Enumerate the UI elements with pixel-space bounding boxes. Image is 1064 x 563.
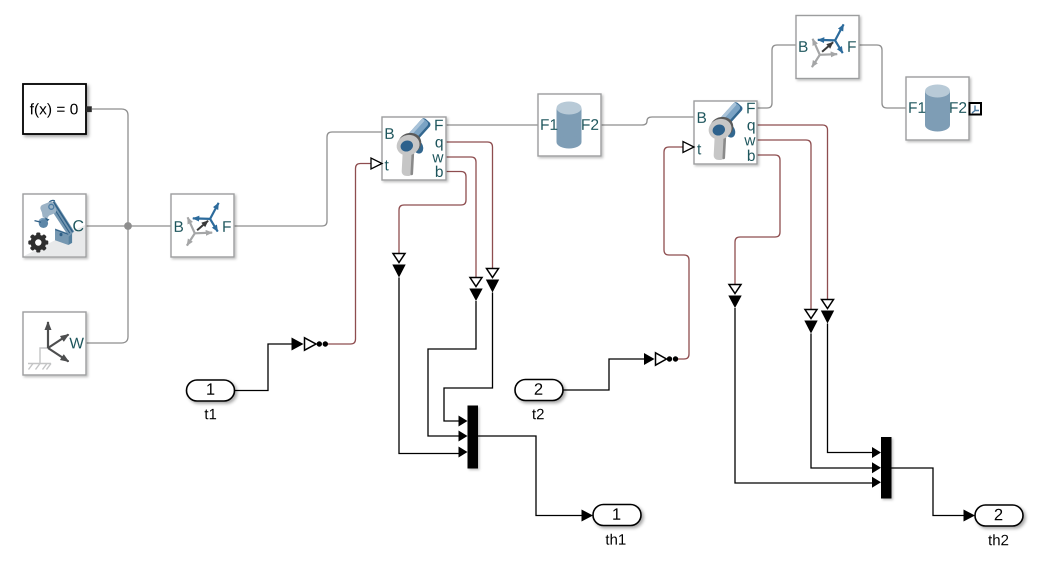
port B (175, 221, 183, 232)
joint icon (394, 117, 432, 176)
wire RT2 F to Solid2 F1 (859, 45, 906, 108)
wire converterC to Mux1 input1 (444, 293, 493, 422)
port q (436, 139, 443, 151)
wire Joint2 F to RT2 B (757, 45, 796, 108)
wire In2 to converter2 (563, 359, 644, 390)
converterF PS-S (joint2 q) (821, 300, 834, 324)
port F (435, 120, 443, 131)
outport 1 (th1) (593, 505, 641, 545)
port B (698, 112, 706, 123)
port t (697, 144, 701, 154)
mux 1 (459, 406, 479, 469)
wire simulink signals (black) (235, 278, 964, 516)
wire In1 to converter1 (235, 344, 292, 391)
wire converter1 to Joint1 t (328, 164, 372, 345)
mux 2 (872, 437, 892, 499)
rigid transform 1 block (171, 194, 234, 257)
port F1 (909, 102, 925, 113)
wire RT1 F to Joint1 B (234, 132, 382, 226)
wire converterA to Mux1 input3 (399, 278, 459, 454)
cylinder (925, 91, 950, 125)
blue follower frame (193, 203, 219, 232)
port w (744, 137, 755, 145)
outport 2 (th2) (975, 505, 1023, 545)
frame axes (48, 322, 69, 362)
port t (385, 160, 389, 170)
world frame block (23, 312, 86, 375)
port B (386, 128, 394, 139)
mechanism configuration block (23, 194, 86, 257)
outport 2 (th2) arrowhead (964, 510, 976, 522)
wire Joint2 b to converterD (735, 155, 780, 284)
wire Mux2 to Out2 (892, 468, 964, 516)
converter2 S-PS (t2) (644, 353, 678, 365)
port B (799, 41, 807, 52)
wire Joint1 w to converterB (446, 157, 476, 277)
black transform arrow (822, 42, 833, 52)
wire converterF to Mux2 input1 (828, 324, 873, 453)
blue follower frame (818, 24, 844, 53)
solid 1 block (cylinder) (538, 94, 601, 156)
wire Joint1 F to Solid1 F1 (446, 124, 538, 126)
converterA PS-S (joint1 b) (392, 254, 405, 278)
wire Mux1 to Out1 (478, 436, 582, 516)
ground bracket (28, 348, 51, 370)
inport 2 (t2) (515, 380, 563, 420)
port b (748, 150, 755, 161)
converterD PS-S (joint2 b) (728, 285, 741, 309)
wire converter2 to Joint2 t (664, 147, 689, 359)
outport 1 (th1) arrowhead (582, 510, 594, 522)
wire converterB to Mux1 input2 (428, 301, 476, 436)
wire solver-to-junction and junction-to-world vertical (86, 109, 128, 343)
wire Solid1 F2 to Joint2 B (601, 117, 694, 125)
port t input arrow (371, 158, 382, 169)
inport 1 (t1) (187, 380, 235, 419)
port F (223, 221, 231, 232)
port C (73, 220, 83, 231)
port F (848, 41, 856, 52)
wire (86, 45, 906, 343)
wire converterE to Mux2 input2 (811, 334, 872, 469)
wire junction to RT1 B (128, 225, 171, 227)
wire converterD to Mux2 input3 (735, 308, 872, 483)
solid 2 block (cylinder) (906, 77, 981, 140)
revolute joint 1 block (371, 117, 446, 180)
port W (69, 338, 84, 349)
converterC PS-S (joint1 q) (486, 269, 499, 293)
wire Joint1 q to converterC (446, 142, 493, 268)
gray base frame (187, 217, 212, 245)
wire Joint2 w to converterE (757, 140, 811, 309)
port t input arrow (683, 142, 694, 153)
wire Joint1 b to converterA (399, 172, 466, 254)
cylinder (557, 108, 582, 142)
unconnected port marker (970, 103, 982, 115)
port F (747, 103, 755, 114)
wire mechanism C to junction (86, 225, 128, 227)
black transform arrow (197, 221, 208, 231)
port F2 (582, 119, 598, 130)
port q (748, 122, 755, 134)
wire Joint2 q to converterF (757, 125, 828, 299)
revolute joint 2 block (683, 101, 757, 164)
rigid transform 2 block (796, 16, 859, 79)
gray base frame (812, 39, 837, 67)
port b (436, 166, 443, 177)
converterB PS-S (joint1 w) (469, 278, 482, 302)
converterE PS-S (joint2 w) (804, 310, 817, 334)
port F1 (541, 119, 557, 130)
port F2 (950, 102, 966, 113)
node junction (124, 222, 132, 230)
solver configuration block f(x)=0 (23, 84, 92, 134)
converter1 S-PS (t1) (292, 338, 328, 351)
port w (432, 154, 443, 162)
joint icon (706, 101, 744, 160)
gear (28, 233, 48, 253)
wire physical signals (maroon) (328, 125, 828, 359)
robot arm icon (35, 200, 75, 245)
